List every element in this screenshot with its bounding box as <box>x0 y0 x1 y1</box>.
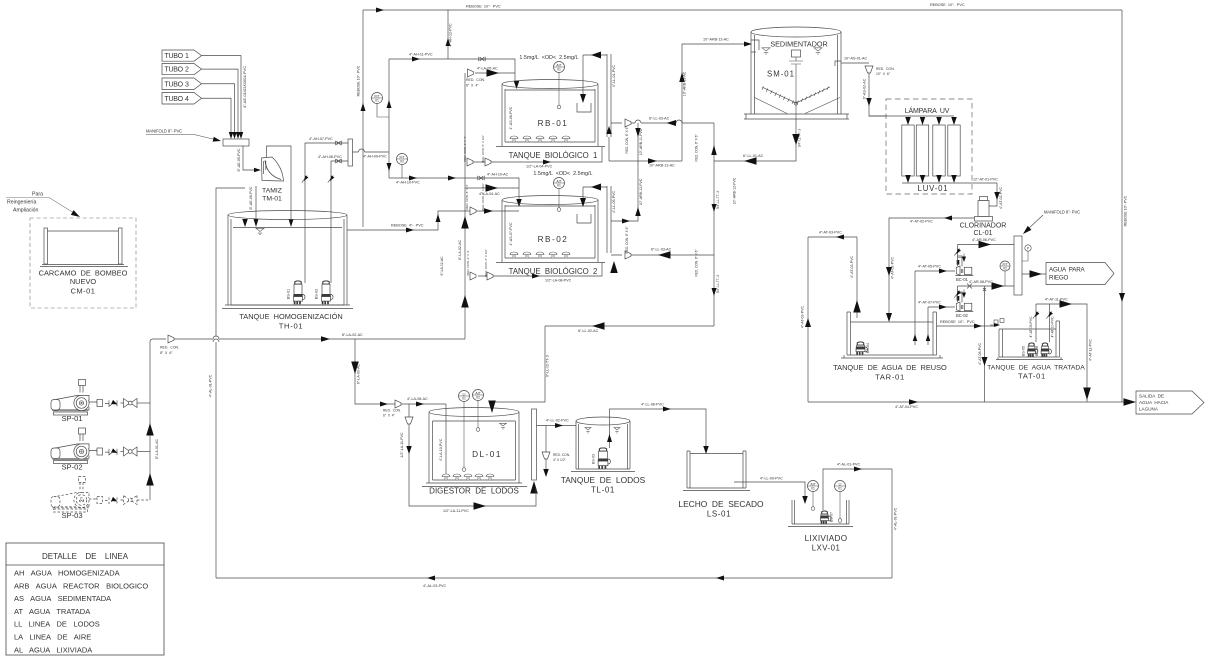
svg-text:01: 01 <box>557 183 561 187</box>
wire outfall 4"-AT-04-PVC <box>808 401 1126 403</box>
svg-text:RB-01: RB-01 <box>538 119 569 128</box>
instrument AIT RB-01 <box>554 62 565 73</box>
svg-text:4”-AT-02-PVC: 4”-AT-02-PVC <box>910 220 933 224</box>
svg-text:LL LINEA DE LODOS: LL LINEA DE LODOS <box>14 620 100 629</box>
svg-text:RIEGO: RIEGO <box>1049 275 1069 282</box>
svg-text:BS-07: BS-07 <box>830 512 834 522</box>
svg-text:ARB AGUA REACTOR BIOLOGICO: ARB AGUA REACTOR BIOLOGICO <box>14 581 148 590</box>
svg-text:6”-LL-03-AC: 6”-LL-03-AC <box>651 248 672 252</box>
instrument FIT-03 <box>1000 261 1010 271</box>
wire 4"-AH-11-PVC <box>389 58 448 60</box>
svg-text:SALIDA DE: SALIDA DE <box>1139 394 1164 399</box>
pump BS-03 <box>598 448 611 469</box>
pump BS-05 <box>1027 343 1038 357</box>
svg-text:LAGUNA: LAGUNA <box>1139 407 1159 412</box>
svg-text:01: 01 <box>838 486 842 490</box>
wire air header 8"-LA-01-AC <box>149 342 151 500</box>
svg-text:8”-LA-01-AC: 8”-LA-01-AC <box>155 439 159 460</box>
svg-text:TAR-01: TAR-01 <box>875 373 905 382</box>
svg-text:6”-LL-02-TT-.9: 6”-LL-02-TT-.9 <box>546 355 550 377</box>
svg-text:MANIFOLD 8”- PVC: MANIFOLD 8”- PVC <box>146 129 182 134</box>
wire 6"-LA-02-AC air riser <box>464 73 466 339</box>
svg-text:LUV-01: LUV-01 <box>918 184 949 193</box>
tank CM-01 carcamo dashed box <box>30 218 136 308</box>
svg-text:4” X 1/2”: 4” X 1/2” <box>553 458 566 462</box>
svg-text:REBOSE 10”- PVC: REBOSE 10”- PVC <box>1124 195 1128 226</box>
wire REBOSE 10"- PVC right drop <box>1121 10 1123 402</box>
svg-text:REBOSE 4”- PVC: REBOSE 4”- PVC <box>391 224 424 228</box>
svg-text:4”-AH-08-PVC: 4”-AH-08-PVC <box>318 155 342 159</box>
svg-text:TANQUE DE AGUA DE REUSO: TANQUE DE AGUA DE REUSO <box>833 363 947 372</box>
pump BS-02 <box>321 281 333 304</box>
wire 8"-LA-02-AC main air run <box>150 336 465 342</box>
svg-text:Reingeniería: Reingeniería <box>7 200 37 206</box>
svg-text:TUBO 4: TUBO 4 <box>165 96 190 103</box>
pump BC-01 booster <box>915 270 955 272</box>
wire riego outlet <box>1022 273 1046 275</box>
wire SM-01 sludge 6"-LL-01-AC <box>714 119 796 161</box>
svg-text:RED. CON.: RED. CON. <box>466 78 485 82</box>
svg-text:6” X 4”: 6” X 4” <box>466 84 479 88</box>
wire 4"-LL-06-PVC to LS-01 <box>610 409 707 448</box>
svg-text:DL-01: DL-01 <box>472 450 502 459</box>
svg-text:TL-01: TL-01 <box>591 486 615 495</box>
svg-text:SEDIMENTADOR: SEDIMENTADOR <box>770 40 827 49</box>
wire 10"-ARB-11-PVC <box>609 123 638 161</box>
wire riser to 4"-AH-11-PVC <box>388 59 390 178</box>
blower SP-02 <box>51 428 150 464</box>
wire 4"-AL-01-PVC return riser to TH-01 <box>213 188 245 578</box>
wire 4"-AT-11-PVC <box>1036 304 1087 402</box>
node outlet channel <box>583 186 611 253</box>
svg-text:1.5mg/L <OD< 2.5mg/L: 1.5mg/L <OD< 2.5mg/L <box>533 171 592 177</box>
svg-text:BC-01: BC-01 <box>956 277 969 282</box>
svg-text:BS-03: BS-03 <box>592 454 596 464</box>
svg-text:RED. CON. 6” X 4”: RED. CON. 6” X 4” <box>463 136 467 161</box>
svg-text:4”-AT-10-PVC: 4”-AT-10-PVC <box>1051 316 1055 338</box>
svg-text:RED. CON.: RED. CON. <box>876 67 895 71</box>
wire 10"-ARB-13-AC <box>609 160 682 162</box>
svg-text:1/2”-LA-11-PVC: 1/2”-LA-11-PVC <box>400 432 404 458</box>
instrument PI <box>1025 245 1031 251</box>
instrument FIT-02 <box>397 154 408 165</box>
svg-text:CLORINADOR: CLORINADOR <box>960 223 1007 230</box>
svg-text:12”-AT-01-PVC: 12”-AT-01-PVC <box>973 178 998 182</box>
svg-text:TANQUE HOMOGENIZACIÓN: TANQUE HOMOGENIZACIÓN <box>239 312 342 321</box>
svg-text:LECHO DE SECADO: LECHO DE SECADO <box>678 499 764 509</box>
svg-text:4”-AL-03-PVC: 4”-AL-03-PVC <box>423 584 446 588</box>
svg-text:LS-01: LS-01 <box>707 510 731 519</box>
svg-text:TANQUE BIOLÓGICO 1: TANQUE BIOLÓGICO 1 <box>509 151 598 160</box>
screen TAMIZ TM-01 <box>262 157 284 181</box>
svg-text:1.5mg/L <OD< 2.5mg/L: 1.5mg/L <OD< 2.5mg/L <box>519 55 578 61</box>
wire from TUBO 2 to manifold <box>202 69 239 132</box>
svg-text:AL AGUA LIXIVIADA: AL AGUA LIXIVIADA <box>14 645 92 654</box>
svg-text:01: 01 <box>375 98 379 102</box>
svg-text:TUBO 3: TUBO 3 <box>165 81 190 88</box>
wire TAT discharge risers <box>1036 304 1050 342</box>
svg-text:02: 02 <box>1003 266 1007 270</box>
wire 4"-LL-02-PVC to TL-01 <box>537 425 577 427</box>
svg-text:02: 02 <box>400 159 404 163</box>
svg-text:3/4”-LL-TT-.9: 3/4”-LL-TT-.9 <box>798 128 802 147</box>
svg-text:4”-AE-01/02/03/04-PVC: 4”-AE-01/02/03/04-PVC <box>242 66 247 108</box>
wire BC-02 discharge 4"-AR-08-PVC <box>958 286 963 302</box>
svg-text:6”-LL-02-AC: 6”-LL-02-AC <box>578 329 599 333</box>
svg-text:4”-AT-03-PVC: 4”-AT-03-PVC <box>850 255 854 278</box>
node SALIDA DE AGUA HACIA LAGUNA flag <box>1136 391 1204 414</box>
tank TAT-01 treated water <box>996 321 1063 360</box>
wire tamiz bypass to TH-01 <box>267 146 292 219</box>
svg-text:RED. CON. 6” X 1/2”: RED. CON. 6” X 1/2” <box>481 135 485 163</box>
wire 4"-LA-05-AC to RB-01 <box>475 72 515 74</box>
wire 6"-LL-03-AC return to RB-01 <box>611 120 714 123</box>
svg-text:10”-ARB-12-PVC: 10”-ARB-12-PVC <box>639 178 643 205</box>
svg-text:1/2”-LA-04-PVC: 1/2”-LA-04-PVC <box>526 165 553 169</box>
svg-text:6”-LA-02-AC: 6”-LA-02-AC <box>440 256 444 276</box>
wire 4"-AH-09-PVC with crossover hop <box>353 149 389 152</box>
wire from TUBO 4 to manifold <box>202 98 232 132</box>
wire LUV bottom header 12"-AT-01-PVC <box>902 182 997 184</box>
wire 4"-LA-04-AC <box>465 187 519 189</box>
pump BS-07 <box>820 511 831 524</box>
node TUBO 3 flag <box>162 78 202 90</box>
svg-text:TANQUE DE AGUA TRATADA: TANQUE DE AGUA TRATADA <box>987 365 1085 372</box>
wire 1/2"-LA-04-PVC drain RB-01 <box>473 147 602 162</box>
tank LXV-01 leachate <box>788 500 853 527</box>
svg-text:6”-LL-03-AC: 6”-LL-03-AC <box>649 117 670 121</box>
svg-text:4”-AR-06-PVC: 4”-AR-06-PVC <box>972 238 996 242</box>
svg-text:RED. CON. 6” X 6”: RED. CON. 6” X 6” <box>695 135 699 162</box>
wire 4"-AH-12-PVC riser <box>447 10 449 59</box>
svg-text:6”-LA-03-AC: 6”-LA-03-AC <box>357 364 361 385</box>
wire manifold to tamiz 8"-AE-05-PVC <box>243 146 255 170</box>
reactor RB-02 tank shell <box>496 196 605 263</box>
pump BS-01 <box>293 281 305 304</box>
wire 4"-AH-10-AC to RB-02 <box>465 178 519 199</box>
svg-text:AGUA HACIA: AGUA HACIA <box>1139 400 1169 405</box>
instrument AIT-03 <box>808 481 819 492</box>
wire AL drop <box>891 469 893 578</box>
svg-text:8” X 6”: 8” X 6” <box>160 351 173 355</box>
svg-text:1/2”-LA-08-PVC: 1/2”-LA-08-PVC <box>545 279 572 283</box>
svg-text:4”-LA-08-AC: 4”-LA-08-AC <box>407 397 428 401</box>
wire 1/2"-LA-11-PVC loop <box>409 404 536 506</box>
svg-text:4”-AH-09-PVC: 4”-AH-09-PVC <box>363 155 387 159</box>
svg-text:4”-AR-08-PVC: 4”-AR-08-PVC <box>969 280 993 284</box>
svg-text:SM-01: SM-01 <box>767 70 795 79</box>
svg-text:RED. CON. 6” X 6”: RED. CON. 6” X 6” <box>695 250 699 277</box>
svg-text:4”-AL-01-PVC: 4”-AL-01-PVC <box>837 463 860 467</box>
svg-text:AS AGUA SEDIMENTADA: AS AGUA SEDIMENTADA <box>14 594 111 603</box>
svg-text:BS-06: BS-06 <box>1035 346 1039 356</box>
manifold header 8" PVC <box>223 139 249 146</box>
wire LUV top header <box>869 115 954 117</box>
svg-text:1/2”-LA-11-PVC: 1/2”-LA-11-PVC <box>443 509 469 513</box>
svg-text:10”-ARB-12-PVC: 10”-ARB-12-PVC <box>733 177 737 204</box>
pump BC-02 booster <box>928 306 955 308</box>
wire BC-01 discharge 4"-AR-06-PVC <box>958 245 963 267</box>
svg-text:8”-AE-06-PVC: 8”-AE-06-PVC <box>249 186 253 209</box>
svg-text:AT AGUA TRATADA: AT AGUA TRATADA <box>14 607 90 616</box>
svg-text:LXV-01: LXV-01 <box>812 544 841 553</box>
wire 4"-AL-03-PVC bottom run <box>216 577 892 579</box>
svg-text:10”-ARB-13-AC: 10”-ARB-13-AC <box>649 164 675 168</box>
svg-text:4”-AT-04-PVC: 4”-AT-04-PVC <box>895 405 918 409</box>
wire from TUBO 1 to manifold <box>202 56 242 132</box>
wire 1/2"-LA-08-PVC drain RB-02 <box>478 263 602 277</box>
wire RB-02 channel bottom arrow <box>610 261 618 273</box>
svg-text:4”-AT-05-PVC: 4”-AT-05-PVC <box>918 265 941 269</box>
svg-text:4”-AH-10-AC: 4”-AH-10-AC <box>487 173 509 177</box>
svg-text:4”-AT-03-PVC: 4”-AT-03-PVC <box>801 305 805 328</box>
wire sludge collector down <box>713 123 715 326</box>
instrument AIT-02 digester <box>473 390 484 401</box>
svg-text:AH AGUA HOMOGENIZADA: AH AGUA HOMOGENIZADA <box>14 569 120 578</box>
svg-text:MANIFOLD 8”- PVC: MANIFOLD 8”- PVC <box>1044 210 1080 215</box>
svg-text:SP-03: SP-03 <box>61 511 82 520</box>
svg-text:4”-AT-11-PVC: 4”-AT-11-PVC <box>1089 339 1093 361</box>
svg-text:3/4”-LL-TT-.9: 3/4”-LL-TT-.9 <box>716 274 720 293</box>
wire from TUBO 3 to manifold <box>202 84 235 132</box>
svg-text:3/4”-LL-TT-.9: 3/4”-LL-TT-.9 <box>716 190 720 209</box>
instrument LI-02 <box>835 481 846 492</box>
UV unit LUV-01 dashed enclosure <box>886 99 972 194</box>
wire 6"-LL-03-AC return to RB-02 <box>611 254 714 256</box>
svg-text:10”-ARB-11-PVC: 10”-ARB-11-PVC <box>639 128 643 155</box>
svg-text:BS-01: BS-01 <box>287 289 291 300</box>
svg-text:TAMIZ: TAMIZ <box>262 188 282 195</box>
svg-text:4”-AT-02-PVC: 4”-AT-02-PVC <box>891 256 895 279</box>
svg-text:4”-LL-09-PVC: 4”-LL-09-PVC <box>760 477 783 481</box>
svg-text:4”-AT-03-PVC: 4”-AT-03-PVC <box>819 231 842 235</box>
wire BC suction pipes <box>915 271 928 345</box>
UV lamp tubes <box>902 125 914 176</box>
svg-text:4”-AT-02-PVC: 4”-AT-02-PVC <box>999 186 1003 209</box>
svg-text:BS-02: BS-02 <box>315 289 319 300</box>
svg-text:4”-AT-11-PVC: 4”-AT-11-PVC <box>1045 298 1068 302</box>
svg-text:REBOSE 10”- PVC: REBOSE 10”- PVC <box>940 320 975 324</box>
instrument AIT RB-02 <box>554 178 565 189</box>
wire 10"-AS-01-AC outlet <box>835 61 869 66</box>
tank SM-01 sedimentator <box>744 27 849 119</box>
wire REBOSE 10"- PVC top run <box>363 9 1122 11</box>
svg-text:4”-AH-07-PVC: 4”-AH-07-PVC <box>309 137 333 141</box>
svg-text:RED. CON. 8” X 4”: RED. CON. 8” X 4” <box>465 184 469 209</box>
wire 6"-LL-02-AC <box>545 325 714 327</box>
svg-text:DETALLE DE LINEA: DETALLE DE LINEA <box>42 552 129 561</box>
svg-text:4”-LL-04-PVC: 4”-LL-04-PVC <box>612 65 616 88</box>
blower SP-01 <box>51 380 150 416</box>
wire 4"-LL-09-PVC to LXV <box>734 482 805 497</box>
instrument FIT-01 <box>372 93 383 104</box>
blower SP-03 (future, dashed) <box>51 477 150 513</box>
instrument LI-01 digester <box>459 391 470 402</box>
wire REBOSE 10"- PVC overflow <box>937 325 995 327</box>
svg-text:RED. CON. 6” X 4”: RED. CON. 6” X 4” <box>466 250 470 275</box>
wire BS-02 discharge 4"-AH-08-PVC <box>331 161 348 283</box>
wire tamiz outlet 8"-AE-06-PVC <box>255 186 257 219</box>
wire to clorinador <box>989 183 997 206</box>
svg-text:BS-05: BS-05 <box>1022 346 1026 356</box>
svg-text:AGUA PARA: AGUA PARA <box>1049 267 1086 274</box>
wire 4"-AH-10-PVC <box>389 177 465 179</box>
svg-text:4”-AH-10-PVC: 4”-AH-10-PVC <box>396 181 420 185</box>
svg-text:TUBO 1: TUBO 1 <box>165 53 190 60</box>
svg-text:CM-01: CM-01 <box>71 287 96 296</box>
svg-text:LÁMPARA UV: LÁMPARA UV <box>905 106 950 115</box>
node SM-01 inlet elbow <box>751 40 759 52</box>
svg-text:4”-LL-05-PVC: 4”-LL-05-PVC <box>612 191 616 214</box>
svg-text:10”-AS-01-AC: 10”-AS-01-AC <box>844 57 867 61</box>
svg-text:4”-AT-08-PVC: 4”-AT-08-PVC <box>978 342 982 365</box>
svg-text:REBOSE 10”- PVC: REBOSE 10”- PVC <box>357 65 361 96</box>
wire 6"-LA-03-AC branch to digester <box>355 339 446 404</box>
svg-text:RED. CON. 6” X 1/2”: RED. CON. 6” X 1/2” <box>484 249 488 277</box>
wire digester air riser 4"-LA-10-PVC <box>445 404 447 474</box>
node DL-01 standpipe <box>532 409 537 480</box>
svg-text:RED. CON.: RED. CON. <box>553 453 570 457</box>
svg-text:Para: Para <box>32 192 43 198</box>
svg-text:4”-AS-07-PVC: 4”-AS-07-PVC <box>509 222 513 245</box>
node outlet channel <box>583 54 611 137</box>
svg-text:TUBO 2: TUBO 2 <box>165 67 190 74</box>
svg-text:CL-01: CL-01 <box>973 230 992 237</box>
svg-text:RED. CON.: RED. CON. <box>383 409 401 413</box>
svg-text:4”-LL-02-PVC: 4”-LL-02-PVC <box>546 419 569 423</box>
svg-text:01: 01 <box>462 396 466 400</box>
svg-text:RED. CON. 8” X 1/2”: RED. CON. 8” X 1/2” <box>481 183 485 211</box>
node AGUA PARA RIEGO flag <box>1046 263 1114 285</box>
wire DL-01 drain with reducer <box>545 426 547 471</box>
wire 6"-AS-02-AC to LUV <box>869 73 887 116</box>
tank DL-01 digester <box>422 408 527 487</box>
svg-text:6” X 4”: 6” X 4” <box>383 414 395 418</box>
node TAT inlet square <box>1000 319 1004 323</box>
svg-text:6”-LL-01-AC: 6”-LL-01-AC <box>743 154 764 158</box>
svg-text:REBOSE 10”- PVC: REBOSE 10”- PVC <box>930 3 965 7</box>
chlorine manifold bar <box>1014 236 1022 295</box>
svg-text:LA LINEA DE AIRE: LA LINEA DE AIRE <box>14 633 91 642</box>
svg-text:4”-AL-01-PVC: 4”-AL-01-PVC <box>894 507 898 530</box>
wire REBOSE 10"- PVC riser from TH-01 <box>362 10 364 227</box>
svg-text:NUEVO: NUEVO <box>70 277 97 286</box>
svg-text:4”-AS-06-PVC: 4”-AS-06-PVC <box>509 106 513 129</box>
svg-text:6”-AS-02-AC: 6”-AS-02-AC <box>863 78 867 99</box>
pump BS-06 <box>1041 343 1052 357</box>
svg-text:4”-AT-07-PVC: 4”-AT-07-PVC <box>918 301 941 305</box>
wire 4"-AT-08-PVC drop <box>983 286 986 402</box>
wire feed to RB-01 <box>448 59 515 81</box>
pump BS-04 <box>856 342 868 355</box>
wire BS-01 discharge 4"-AH-07-PVC <box>305 143 348 283</box>
svg-text:02: 02 <box>476 395 480 399</box>
svg-text:4”-AL-01-PVC: 4”-AL-01-PVC <box>209 374 213 397</box>
wire REBOSE 4"- PVC from TH-01 <box>347 211 519 230</box>
chlorinator CL-01 <box>975 197 993 222</box>
svg-text:TANQUE BIOLÓGICO 2: TANQUE BIOLÓGICO 2 <box>509 267 598 276</box>
svg-text:RED. CON. 6” X 6”: RED. CON. 6” X 6” <box>625 227 629 254</box>
svg-text:8”-AE-05-PVC: 8”-AE-05-PVC <box>237 148 241 171</box>
svg-text:4”-AH-12-PVC: 4”-AH-12-PVC <box>449 23 453 47</box>
node TUBO 2 flag <box>162 64 202 75</box>
svg-text:TM-01: TM-01 <box>262 196 282 203</box>
wire 4"-AT-03-PVC into TAR-01 <box>808 237 857 318</box>
svg-text:TH-01: TH-01 <box>279 322 304 331</box>
svg-text:10” X 6”: 10” X 6” <box>876 72 890 76</box>
node internal weir <box>582 187 584 198</box>
svg-text:RB-02: RB-02 <box>538 235 569 244</box>
svg-text:4”-LA-05-AC: 4”-LA-05-AC <box>477 67 498 71</box>
svg-text:Ampliación: Ampliación <box>13 208 38 214</box>
svg-text:DIGESTOR DE LODOS: DIGESTOR DE LODOS <box>429 487 519 496</box>
wire sludge feed into DL-01 <box>492 326 545 402</box>
wire 10"-ARB-12-PVC <box>611 161 638 221</box>
svg-text:01: 01 <box>557 67 561 71</box>
pump discharge header bar <box>348 139 353 166</box>
tank TL-01 sludge tank <box>571 417 635 472</box>
tank LS-01 drying bed <box>683 451 750 491</box>
wire 4"-AL-01-PVC discharge <box>823 469 892 510</box>
wire RB-01 channel riser arrow <box>606 126 612 134</box>
svg-text:REBOSE 10”- PVC: REBOSE 10”- PVC <box>466 5 501 9</box>
svg-text:TANQUE DE LODOS: TANQUE DE LODOS <box>561 475 646 485</box>
svg-text:BC-02: BC-02 <box>956 313 969 318</box>
svg-text:SP-01: SP-01 <box>61 414 82 423</box>
tank TH-01 homogenization <box>222 211 353 309</box>
svg-text:SP-02: SP-02 <box>61 463 82 472</box>
wire 4"-AT-03-PVC drop to outfall <box>807 237 809 402</box>
node SM-01 lamella rake <box>762 87 830 104</box>
svg-text:6”-LA-02-AC: 6”-LA-02-AC <box>458 240 462 261</box>
tank TAR-01 reuse water <box>841 312 943 358</box>
node SM-01 feedwell <box>792 50 801 57</box>
node TUBO 1 flag <box>162 50 202 61</box>
wire ARB riser to SM-01 <box>682 44 745 161</box>
svg-text:4”-LL-06-PVC: 4”-LL-06-PVC <box>641 403 664 407</box>
svg-text:BS-04: BS-04 <box>866 343 870 353</box>
svg-text:10”-ARB-13-AC: 10”-ARB-13-AC <box>683 71 687 96</box>
svg-text:RED. CON. 6” X 6”: RED. CON. 6” X 6” <box>625 127 629 154</box>
svg-text:TAT-01: TAT-01 <box>1018 372 1046 381</box>
svg-text:01: 01 <box>811 486 815 490</box>
svg-text:4”-AH-11-PVC: 4”-AH-11-PVC <box>409 53 433 57</box>
svg-text:8”-LA-02-AC: 8”-LA-02-AC <box>342 333 363 337</box>
reactor RB-01 tank shell <box>496 80 605 147</box>
svg-text:4”-LA-10-PVC: 4”-LA-10-PVC <box>439 438 443 461</box>
svg-text:10”-ARB-13-AC: 10”-ARB-13-AC <box>703 38 729 42</box>
node TUBO 4 flag <box>162 93 202 105</box>
node internal weir <box>582 55 584 95</box>
legend DETALLE DE LINEA <box>6 543 164 655</box>
svg-text:4”-AT-09-PVC: 4”-AT-09-PVC <box>1029 316 1033 338</box>
svg-text:RED. CON.: RED. CON. <box>160 346 179 350</box>
wire 4"-AT-02-PVC to TAR-01 <box>889 218 975 318</box>
svg-text:LIXIVIADO: LIXIVIADO <box>805 534 848 543</box>
